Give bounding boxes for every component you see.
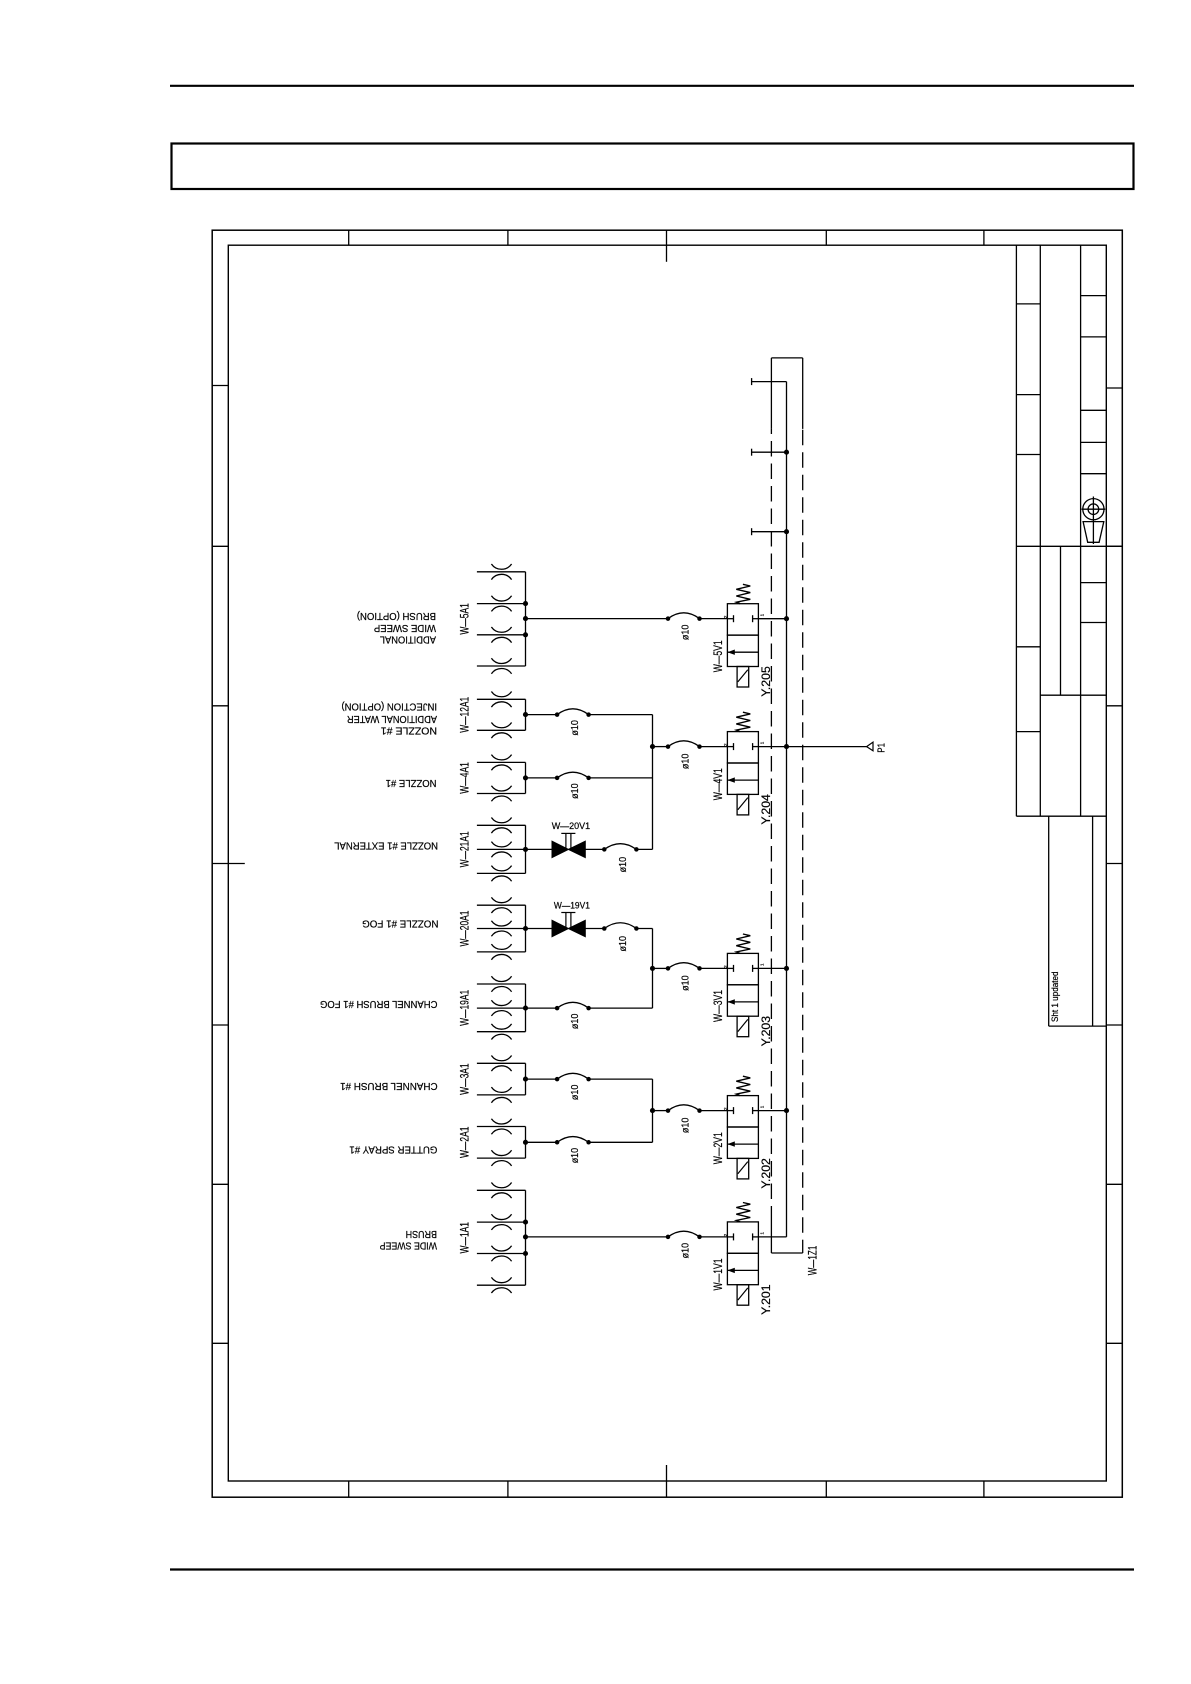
svg-text:ø10: ø10 <box>680 975 692 991</box>
svg-text:W—4A1: W—4A1 <box>458 762 472 794</box>
svg-text:ø10: ø10 <box>569 1013 581 1029</box>
svg-text:W—4V1: W—4V1 <box>711 768 725 800</box>
svg-text:W—3A1: W—3A1 <box>458 1063 472 1095</box>
svg-text:W—5V1: W—5V1 <box>711 640 725 672</box>
svg-text:ø10: ø10 <box>680 1117 692 1133</box>
svg-text:NOZZLE #1 EXTERNAL: NOZZLE #1 EXTERNAL <box>334 839 438 851</box>
svg-text:Y.202: Y.202 <box>759 1158 773 1189</box>
svg-text:W—20V1: W—20V1 <box>552 821 591 832</box>
svg-text:W—19V1: W—19V1 <box>554 901 590 912</box>
svg-text:ø10: ø10 <box>617 936 629 952</box>
svg-text:ø10: ø10 <box>569 1148 581 1164</box>
svg-text:INJECTION (OPTION): INJECTION (OPTION) <box>342 701 438 713</box>
svg-text:ADDITIONAL: ADDITIONAL <box>380 634 436 646</box>
svg-text:GUTTER SPRAY #1: GUTTER SPRAY #1 <box>349 1143 437 1155</box>
svg-text:WIDE SWEEP: WIDE SWEEP <box>380 1240 437 1252</box>
svg-text:ø10: ø10 <box>617 857 629 873</box>
svg-text:W—12A1: W—12A1 <box>458 697 472 733</box>
svg-text:BRUSH (OPTION): BRUSH (OPTION) <box>357 610 436 622</box>
svg-text:W—2A1: W—2A1 <box>458 1126 472 1158</box>
svg-text:ø10: ø10 <box>680 1243 692 1259</box>
svg-text:BRUSH: BRUSH <box>406 1228 437 1240</box>
svg-text:W—21A1: W—21A1 <box>458 831 472 867</box>
svg-text:W—2V1: W—2V1 <box>711 1132 725 1164</box>
svg-text:W—1Z1: W—1Z1 <box>805 1246 819 1276</box>
svg-text:ø10: ø10 <box>569 720 581 736</box>
svg-text:CHANNEL BRUSH #1: CHANNEL BRUSH #1 <box>340 1080 438 1092</box>
svg-text:Y.203: Y.203 <box>759 1016 773 1047</box>
svg-text:ADDITIONAL WATER: ADDITIONAL WATER <box>347 713 437 725</box>
svg-text:NOZZLE #1: NOZZLE #1 <box>386 777 437 789</box>
svg-text:NOZZLE #1: NOZZLE #1 <box>381 725 437 737</box>
svg-text:ø10: ø10 <box>680 624 692 640</box>
svg-text:Y.201: Y.201 <box>759 1284 773 1315</box>
svg-text:Y.205: Y.205 <box>759 666 773 697</box>
svg-text:P1: P1 <box>877 743 888 753</box>
svg-text:WIDE SWEEP: WIDE SWEEP <box>374 622 436 634</box>
svg-text:NOZZLE #1 FOG: NOZZLE #1 FOG <box>362 918 438 930</box>
svg-text:ø10: ø10 <box>569 783 581 799</box>
svg-text:Sht 1 updated: Sht 1 updated <box>1050 972 1060 1023</box>
svg-text:W—1V1: W—1V1 <box>711 1258 725 1290</box>
svg-text:W—19A1: W—19A1 <box>458 990 472 1026</box>
svg-text:ø10: ø10 <box>680 753 692 769</box>
svg-text:W—3V1: W—3V1 <box>711 990 725 1022</box>
svg-text:CHANNEL BRUSH #1 FOG: CHANNEL BRUSH #1 FOG <box>320 998 438 1010</box>
svg-text:W—5A1: W—5A1 <box>458 603 472 635</box>
svg-text:W—20A1: W—20A1 <box>458 910 472 946</box>
svg-text:W—1A1: W—1A1 <box>458 1222 472 1254</box>
svg-text:ø10: ø10 <box>569 1084 581 1100</box>
svg-text:Y.204: Y.204 <box>759 794 773 825</box>
